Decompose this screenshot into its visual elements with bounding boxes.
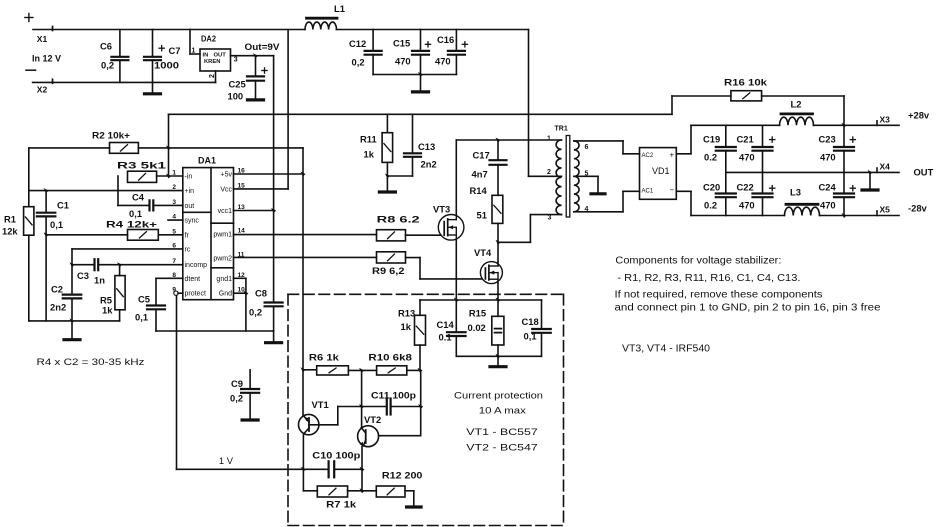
svg-text:1k: 1k: [364, 149, 375, 160]
svg-text:51: 51: [477, 210, 487, 221]
svg-text:0.2: 0.2: [704, 152, 717, 163]
svg-text:X2: X2: [37, 85, 48, 95]
svg-text:L1: L1: [334, 3, 345, 14]
svg-text:sync: sync: [185, 218, 200, 225]
svg-text:R6 1k: R6 1k: [309, 351, 340, 362]
svg-text:1: 1: [192, 48, 196, 55]
svg-text:6: 6: [172, 242, 176, 249]
svg-text:2: 2: [209, 74, 216, 78]
svg-text:R4 x C2 = 30-35 kHz: R4 x C2 = 30-35 kHz: [37, 357, 145, 368]
svg-text:C18: C18: [522, 316, 539, 327]
svg-text:1 V: 1 V: [219, 455, 234, 466]
svg-text:C11 100p: C11 100p: [371, 389, 416, 400]
svg-text:R3 5k1: R3 5k1: [117, 160, 166, 171]
svg-text:DA1: DA1: [198, 156, 216, 166]
svg-text:L3: L3: [790, 187, 801, 198]
svg-text:fr: fr: [185, 232, 190, 239]
svg-text:470: 470: [739, 200, 755, 211]
svg-text:dtent: dtent: [185, 276, 201, 283]
svg-text:7: 7: [172, 258, 176, 265]
svg-text:2n2: 2n2: [421, 159, 437, 170]
svg-text:If not required, remove these: If not required, remove these components: [615, 290, 823, 301]
svg-text:470: 470: [435, 56, 451, 67]
svg-text:-28v: -28v: [908, 203, 928, 214]
svg-text:12k: 12k: [2, 226, 18, 237]
svg-text:R16 10k: R16 10k: [724, 77, 768, 88]
svg-text:0,2: 0,2: [352, 56, 365, 67]
svg-text:Components for voltage stabili: Components for voltage stabilizer:: [615, 255, 781, 266]
svg-text:470: 470: [820, 152, 836, 163]
svg-text:C23: C23: [819, 134, 836, 145]
svg-text:VD1: VD1: [652, 166, 670, 176]
svg-text:4n7: 4n7: [472, 169, 488, 180]
svg-text:+28v: +28v: [908, 109, 930, 120]
svg-text:VT1: VT1: [312, 399, 329, 410]
svg-text:1: 1: [172, 170, 176, 177]
svg-text:Out=9V: Out=9V: [245, 41, 281, 52]
svg-text:IN: IN: [203, 53, 209, 59]
svg-text:C7: C7: [169, 45, 181, 56]
svg-text:X4: X4: [880, 162, 891, 172]
svg-text:X3: X3: [880, 115, 891, 125]
svg-text:2: 2: [547, 169, 551, 176]
svg-text:R9 6,2: R9 6,2: [372, 265, 405, 276]
svg-text:C8: C8: [255, 288, 267, 299]
svg-text:VT3: VT3: [433, 204, 450, 215]
svg-text:0.2: 0.2: [704, 200, 717, 211]
svg-text:14: 14: [238, 228, 246, 235]
svg-text:0.1: 0.1: [439, 332, 452, 343]
svg-text:R8 6.2: R8 6.2: [377, 213, 420, 224]
svg-text:X1: X1: [37, 34, 48, 44]
svg-text:−: −: [670, 186, 675, 195]
svg-text:OUT: OUT: [214, 53, 227, 59]
svg-text:470: 470: [820, 200, 836, 211]
svg-text:- R1, R2, R3, R11, R16, C1, C4: - R1, R2, R3, R11, R16, C1, C4, C13.: [617, 273, 800, 284]
svg-text:3: 3: [234, 57, 238, 64]
svg-text:+: +: [670, 150, 675, 159]
svg-text:0,2: 0,2: [101, 60, 114, 71]
svg-text:0,1: 0,1: [129, 208, 142, 219]
svg-text:C13: C13: [418, 141, 435, 152]
svg-text:-in: -in: [185, 174, 193, 181]
svg-text:C3: C3: [77, 270, 89, 281]
svg-text:10 A max: 10 A max: [479, 406, 526, 417]
svg-text:C5: C5: [138, 294, 150, 305]
svg-text:In 12 V: In 12 V: [32, 54, 61, 64]
svg-text:VT1 - BC557: VT1 - BC557: [466, 427, 538, 438]
svg-text:0,2: 0,2: [249, 307, 262, 318]
svg-text:C22: C22: [737, 182, 754, 193]
svg-text:R2 10k+: R2 10k+: [92, 130, 131, 141]
svg-text:X5: X5: [880, 205, 891, 215]
svg-text:vcc1: vcc1: [218, 208, 233, 215]
svg-text:470: 470: [395, 56, 411, 67]
svg-text:KREN: KREN: [204, 59, 220, 65]
svg-text:VT2: VT2: [364, 414, 381, 425]
svg-text:R12 200: R12 200: [382, 469, 423, 480]
svg-text:1: 1: [547, 136, 551, 143]
svg-text:C24: C24: [819, 182, 837, 193]
svg-text:0,1: 0,1: [135, 312, 148, 323]
svg-text:R10 6k8: R10 6k8: [368, 351, 412, 362]
svg-text:R14: R14: [470, 185, 488, 196]
svg-text:6: 6: [585, 144, 589, 151]
svg-text:Gnd: Gnd: [219, 291, 232, 298]
svg-text:VT4: VT4: [474, 247, 492, 258]
svg-text:100: 100: [228, 91, 244, 102]
svg-text:out: out: [185, 203, 195, 210]
svg-text:470: 470: [739, 152, 755, 163]
svg-text:VT3, VT4 - IRF540: VT3, VT4 - IRF540: [622, 344, 711, 355]
svg-text:C1: C1: [57, 200, 69, 211]
svg-text:Current protection: Current protection: [454, 391, 543, 402]
svg-text:VT2 - BC547: VT2 - BC547: [466, 443, 538, 454]
svg-text:5: 5: [172, 228, 176, 235]
svg-text:C16: C16: [437, 34, 454, 45]
svg-text:C15: C15: [393, 37, 410, 48]
svg-text:R15: R15: [469, 308, 486, 319]
svg-text:OUT: OUT: [914, 167, 934, 178]
svg-text:gnd1: gnd1: [216, 276, 232, 283]
svg-text:2: 2: [172, 184, 176, 191]
svg-text:protect: protect: [185, 291, 206, 298]
svg-text:C12: C12: [349, 38, 366, 49]
svg-text:3: 3: [172, 199, 176, 206]
svg-text:R11: R11: [360, 134, 377, 145]
svg-text:0,1: 0,1: [524, 331, 537, 342]
svg-text:rc: rc: [185, 246, 191, 253]
svg-text:C14: C14: [437, 319, 455, 330]
svg-text:+5v: +5v: [221, 172, 233, 179]
svg-text:C17: C17: [473, 150, 490, 161]
svg-text:2n2: 2n2: [50, 302, 66, 313]
svg-text:R1: R1: [4, 214, 16, 225]
svg-text:1k: 1k: [401, 321, 412, 332]
svg-text:incomp: incomp: [185, 262, 208, 269]
svg-text:DA2: DA2: [201, 34, 216, 44]
svg-text:C2: C2: [51, 284, 63, 295]
svg-text:C10 100p: C10 100p: [312, 449, 360, 460]
svg-text:C19: C19: [703, 134, 720, 145]
svg-text:pwm2: pwm2: [213, 255, 232, 262]
svg-text:AC2: AC2: [642, 153, 654, 159]
svg-text:and connect pin 1 to GND, pin: and connect pin 1 to GND, pin 2 to pin 1…: [615, 302, 882, 313]
svg-text:C6: C6: [100, 40, 112, 51]
svg-text:C20: C20: [703, 182, 720, 193]
svg-text:AC1: AC1: [642, 188, 654, 194]
svg-text:+in: +in: [185, 188, 195, 195]
svg-text:R13: R13: [398, 308, 415, 319]
svg-text:R7 1k: R7 1k: [326, 498, 357, 509]
svg-text:Vcc: Vcc: [220, 186, 232, 193]
svg-text:C21: C21: [737, 134, 754, 145]
svg-text:C25: C25: [229, 79, 246, 90]
svg-text:0.02: 0.02: [468, 322, 486, 333]
svg-text:3: 3: [548, 215, 552, 222]
svg-text:R4 12k+: R4 12k+: [106, 219, 158, 230]
svg-text:C4: C4: [132, 192, 145, 203]
svg-text:L2: L2: [791, 99, 802, 110]
svg-text:1000: 1000: [154, 60, 179, 71]
svg-text:TR1: TR1: [555, 126, 568, 133]
svg-text:1k: 1k: [102, 305, 113, 316]
svg-text:pwm1: pwm1: [213, 232, 232, 239]
svg-text:0,2: 0,2: [230, 393, 243, 404]
svg-text:C9: C9: [231, 378, 243, 389]
svg-text:0,1: 0,1: [50, 219, 63, 230]
svg-text:1n: 1n: [94, 275, 105, 286]
